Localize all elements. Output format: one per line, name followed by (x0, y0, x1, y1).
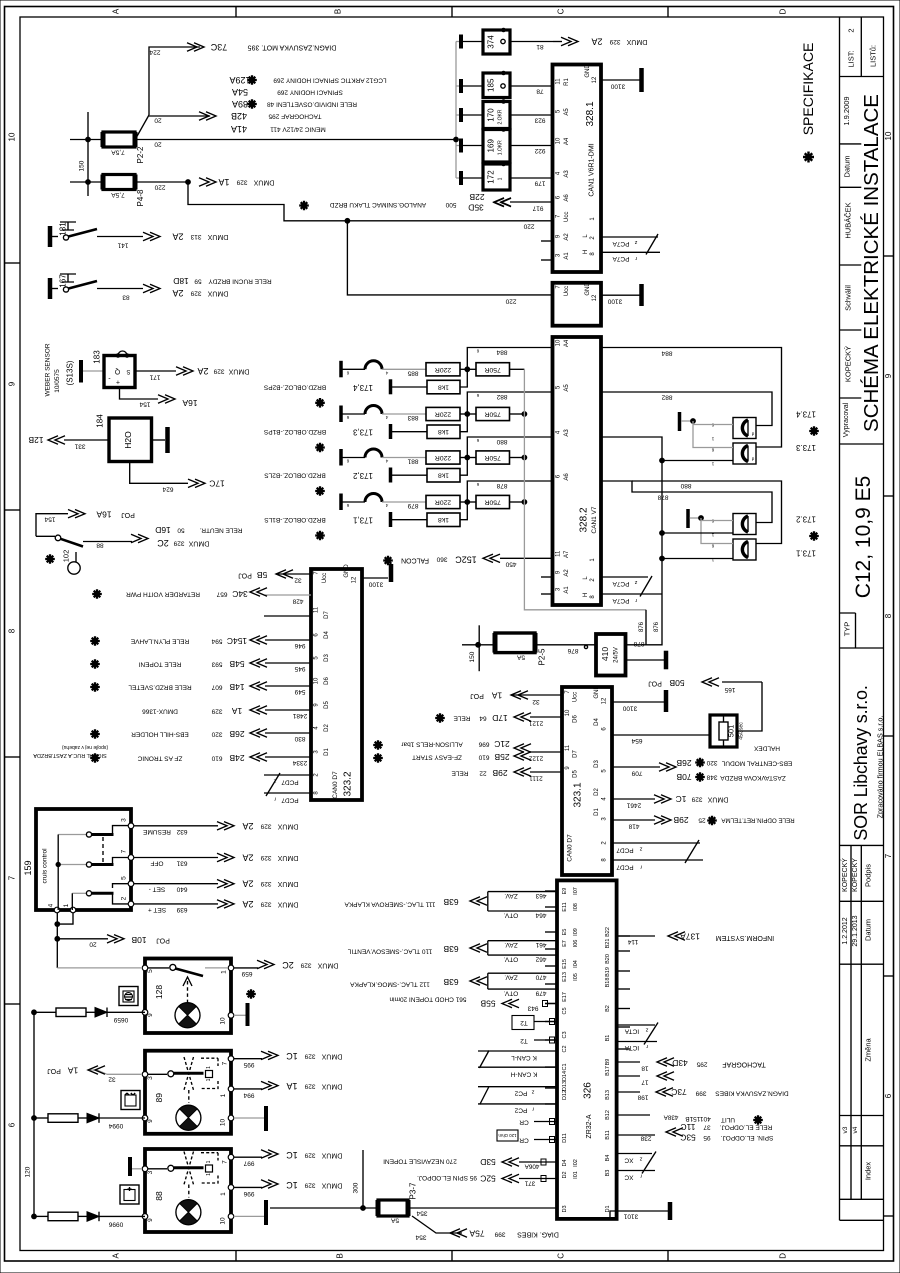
svg-text:ZASTAVKOVA BRZDA: ZASTAVKOVA BRZDA (720, 774, 786, 781)
svg-text:3100: 3100 (610, 83, 625, 90)
svg-text:D12: D12 (562, 1090, 568, 1100)
svg-text:876: 876 (654, 621, 660, 632)
svg-text:3: 3 (121, 818, 128, 822)
svg-text:DMUX: DMUX (188, 540, 209, 547)
wire 750R to bus (510, 457, 525, 459)
svg-text:1A: 1A (218, 177, 229, 187)
svg-text:2.OKR: 2.OKR (498, 109, 504, 124)
svg-text:2461: 2461 (626, 802, 641, 809)
svg-text:DMUX: DMUX (321, 1152, 342, 1159)
wire 410 to bar (626, 659, 665, 661)
svg-text:354: 354 (416, 1210, 427, 1217)
svg-text:348: 348 (706, 774, 717, 781)
fuse P3-7 (362, 1150, 364, 1208)
svg-text:418: 418 (628, 823, 639, 830)
svg-text:A6: A6 (564, 194, 570, 202)
svg-text:709: 709 (631, 770, 642, 777)
svg-text:876: 876 (639, 621, 645, 632)
svg-text:DIAG. KIBES: DIAG. KIBES (517, 1231, 559, 1238)
wire 878 jog (601, 481, 772, 523)
box 410 24/5V (596, 634, 626, 676)
svg-text:18D: 18D (173, 276, 189, 286)
svg-text:7: 7 (222, 1160, 229, 1164)
svg-text:55B: 55B (480, 999, 495, 1009)
svg-text:7: 7 (121, 849, 128, 853)
svg-text:CR: CR (519, 1119, 529, 1126)
svg-text:997: 997 (243, 1160, 254, 1167)
diode resistor chain 89 (32, 1116, 37, 1121)
svg-text:DMUX: DMUX (626, 38, 647, 45)
relay fuse 172 (459, 171, 463, 185)
contact resume (58, 834, 86, 836)
svg-text:RETARDER VOITH PWR: RETARDER VOITH PWR (126, 591, 200, 598)
svg-text:438A: 438A (663, 1114, 679, 1121)
svg-text:E7: E7 (562, 940, 568, 947)
svg-text:WEBER SENSOR: WEBER SENSOR (45, 343, 52, 396)
svg-text:95: 95 (703, 1134, 711, 1141)
svg-text:D2: D2 (562, 1171, 568, 1178)
svg-text:885: 885 (407, 369, 418, 376)
row RESUME (134, 825, 218, 827)
svg-text:750R: 750R (484, 454, 500, 461)
stub rows with conn (545, 1003, 557, 1005)
svg-text:220R: 220R (435, 499, 451, 506)
svg-text:C12, 10,9 E5: C12, 10,9 E5 (852, 476, 875, 599)
svg-text:POJ: POJ (121, 511, 135, 518)
row RELE EL ODPOJ 11C (617, 1134, 655, 1136)
svg-text:329: 329 (691, 796, 702, 803)
pin stubs A2 A1 328.1 (541, 240, 553, 242)
svg-text:PCD7: PCD7 (281, 779, 299, 786)
svg-text:cruis control: cruis control (42, 848, 49, 884)
svg-text:D11: D11 (562, 1133, 568, 1143)
svg-text:OTV.: OTV. (504, 990, 519, 997)
wire 152C FALCON (500, 557, 553, 559)
fuse P2-2 (103, 132, 135, 147)
resistor bus vertical (524, 369, 646, 610)
svg-text:3100: 3100 (607, 298, 622, 305)
contact off (58, 864, 86, 866)
svg-text:PCD7: PCD7 (616, 847, 634, 854)
wire GND 3100 328.1 (601, 79, 640, 81)
svg-text:B22: B22 (605, 927, 611, 937)
svg-text:171: 171 (149, 374, 160, 381)
svg-text:7: 7 (8, 875, 17, 880)
svg-text:D1: D1 (594, 808, 600, 816)
svg-text:A4: A4 (564, 339, 570, 347)
wire stack feed (149, 115, 210, 117)
svg-text:D14: D14 (562, 1071, 568, 1081)
svg-text:198: 198 (637, 1094, 648, 1101)
wire 882 to conn 173.4 (601, 392, 772, 426)
svg-text:10: 10 (314, 677, 320, 684)
resistor 750R 173,4 (476, 363, 510, 376)
svg-text:10: 10 (220, 1119, 227, 1127)
svg-text:220R: 220R (435, 411, 451, 418)
svg-text:GND: GND (585, 64, 591, 78)
svg-text:z: z (634, 579, 637, 585)
svg-text:500: 500 (445, 201, 456, 208)
svg-text:I01: I01 (573, 1171, 579, 1179)
svg-text:17C: 17C (209, 478, 225, 488)
svg-text:329: 329 (304, 1152, 315, 1159)
svg-text:ZF-EASY START: ZF-EASY START (412, 754, 462, 761)
wire to pin 882 (467, 392, 552, 414)
svg-text:428: 428 (292, 598, 303, 605)
svg-text:329: 329 (304, 1083, 315, 1090)
svg-text:DMUX: DMUX (321, 1083, 342, 1090)
svg-text:B: B (334, 9, 343, 14)
rows XC (617, 1153, 652, 1155)
svg-text:Ucc: Ucc (322, 573, 328, 583)
svg-text:329: 329 (190, 289, 201, 296)
svg-text:DMUX: DMUX (277, 900, 298, 907)
svg-text:LIST:: LIST: (846, 50, 855, 67)
resistor 750R 173,1 (476, 495, 510, 508)
fan symbol 89 (176, 1105, 201, 1130)
svg-text:173.3: 173.3 (795, 443, 816, 452)
svg-text:D: D (779, 1253, 788, 1259)
svg-text:220: 220 (505, 298, 516, 305)
svg-text:81: 81 (536, 43, 544, 50)
svg-text:329: 329 (304, 1182, 315, 1189)
svg-text:z: z (639, 1156, 642, 1162)
svg-text:185: 185 (487, 78, 496, 92)
svg-text:16A: 16A (182, 398, 197, 408)
svg-text:B13: B13 (605, 1090, 611, 1100)
svg-text:224: 224 (149, 49, 160, 56)
svg-text:I08: I08 (573, 903, 579, 911)
switch inside 88 (148, 1168, 167, 1170)
right stubs 326 (617, 935, 630, 937)
svg-text:996: 996 (243, 1190, 254, 1197)
svg-text:406A: 406A (524, 1163, 540, 1170)
svg-text:Index: Index (864, 1162, 873, 1181)
svg-text:183: 183 (93, 350, 102, 364)
svg-text:C3: C3 (562, 1031, 568, 1038)
brake sensor group 173,2 (339, 449, 343, 466)
svg-text:607: 607 (211, 684, 222, 691)
svg-text:639: 639 (176, 906, 187, 913)
arrow DMUX 313 2A (143, 232, 160, 240)
wires 159 internal (57, 835, 59, 911)
svg-text:63B: 63B (443, 977, 458, 987)
svg-text:Datum: Datum (843, 155, 852, 177)
box 501 HALDEX (710, 715, 737, 747)
svg-text:450: 450 (505, 561, 516, 568)
row 55B CHOD TOPENI (545, 1003, 557, 1005)
svg-text:750R: 750R (484, 366, 500, 373)
svg-text:462: 462 (535, 956, 546, 963)
brake sensor group 173,3 (339, 406, 343, 423)
svg-text:11: 11 (556, 78, 562, 85)
svg-text:(spojle nej v zabehu): (spojle nej v zabehu) (62, 744, 108, 750)
svg-text:750R: 750R (484, 499, 500, 506)
resistor 1k8 173,1 (389, 512, 393, 527)
terminal 88 pin3 (128, 1157, 132, 1176)
x-cross 88 (184, 1152, 194, 1185)
wire 659 out (234, 967, 258, 969)
svg-text:E5: E5 (562, 929, 568, 936)
row OFF (134, 857, 218, 859)
svg-text:PC2: PC2 (514, 1090, 527, 1097)
svg-text:POJ: POJ (47, 1067, 61, 1074)
resistor 220R 173,1 (426, 495, 460, 508)
svg-text:22: 22 (479, 770, 487, 777)
wire to pin 880 (467, 437, 552, 458)
svg-text:I09: I09 (573, 928, 579, 936)
svg-text:313: 313 (190, 233, 201, 240)
row DIAGN.ZASUVKA KIBES 73C (617, 1091, 640, 1093)
svg-text:A3: A3 (564, 170, 570, 178)
svg-text:B19: B19 (605, 967, 611, 977)
svg-text:RELE TOPENI: RELE TOPENI (138, 661, 181, 668)
svg-text:H: H (583, 593, 589, 597)
svg-text:KOPECKÝ: KOPECKÝ (844, 346, 853, 382)
svg-text:173,4: 173,4 (352, 383, 373, 392)
svg-text:53D: 53D (480, 1157, 496, 1167)
svg-text:D6: D6 (573, 715, 579, 723)
svg-text:329: 329 (609, 38, 620, 45)
svg-text:10: 10 (8, 132, 17, 141)
svg-text:1k8: 1k8 (438, 516, 449, 523)
diode resistor chain 128 (34, 1011, 56, 1013)
svg-text:11C: 11C (681, 1122, 696, 1132)
svg-text:53C: 53C (680, 1133, 696, 1143)
svg-text:DMUX: DMUX (277, 880, 298, 887)
svg-text:D4: D4 (594, 718, 600, 726)
svg-text:120 Ohm: 120 Ohm (498, 1133, 516, 1138)
svg-text:154C: 154C (227, 636, 247, 646)
svg-text:HUBÁČEK: HUBÁČEK (844, 202, 853, 238)
svg-text:9: 9 (147, 1218, 154, 1222)
svg-text:SET -: SET - (149, 886, 166, 893)
dashed actuator 128 (187, 981, 189, 1002)
row 52C SPIN EL ODPOJ (519, 1178, 557, 1180)
svg-text:879: 879 (407, 502, 418, 509)
wire GND 323.1 (612, 701, 664, 703)
svg-text:29.1.2013: 29.1.2013 (852, 915, 859, 946)
svg-text:464: 464 (535, 912, 546, 919)
svg-text:5: 5 (147, 969, 154, 973)
svg-text:331: 331 (74, 443, 85, 450)
svg-text:GND: GND (585, 282, 591, 296)
svg-text:20: 20 (89, 941, 97, 948)
svg-text:26B: 26B (229, 729, 244, 739)
svg-text:DMUX: DMUX (707, 796, 728, 803)
svg-text:r: r (635, 597, 637, 603)
svg-text:DMUX: DMUX (277, 822, 298, 829)
svg-text:173,2: 173,2 (352, 471, 373, 480)
svg-text:D1: D1 (324, 748, 330, 756)
wire D1 418 (612, 819, 655, 821)
connector 173.2 (733, 514, 756, 535)
svg-text:17: 17 (641, 1079, 649, 1086)
svg-text:173.2: 173.2 (795, 515, 816, 524)
svg-text:Zpracováno firmou ELBAS s.r.o.: Zpracováno firmou ELBAS s.r.o. (875, 716, 884, 819)
svg-text:10: 10 (220, 1217, 227, 1225)
svg-text:I02: I02 (573, 1159, 579, 1167)
svg-text:ALLISON-RELS 1bar: ALLISON-RELS 1bar (400, 741, 462, 748)
wire to pin 884 (467, 348, 552, 370)
svg-text:SPECIFIKACE: SPECIFIKACE (800, 43, 816, 136)
resistor 750R 173,3 (476, 407, 510, 420)
svg-text:876: 876 (567, 647, 578, 654)
svg-text:H2O: H2O (123, 431, 133, 449)
svg-text:r: r (532, 1106, 534, 1112)
feed bus x456 (455, 42, 457, 179)
svg-text:6: 6 (8, 1122, 17, 1127)
svg-text:S: S (126, 368, 130, 374)
wire diag kibes (412, 1216, 462, 1233)
svg-text:128: 128 (154, 985, 164, 999)
svg-text:A3: A3 (564, 429, 570, 437)
svg-text:E17: E17 (562, 992, 568, 1002)
svg-text:470: 470 (535, 974, 546, 981)
svg-text:CAN0 D7: CAN0 D7 (332, 771, 339, 799)
row TACHOGRAF 43D (617, 1061, 640, 1063)
svg-text:PC7A: PC7A (612, 240, 630, 247)
wire 3100 gnd2 (601, 294, 640, 296)
wire 224 (149, 47, 200, 115)
brake sensor group 173,4 (339, 361, 343, 378)
svg-text:882: 882 (496, 393, 507, 400)
svg-text:1A: 1A (231, 706, 242, 716)
svg-text:20: 20 (154, 117, 162, 124)
svg-text:11: 11 (565, 744, 571, 751)
svg-text:878: 878 (496, 482, 507, 489)
svg-text:MENIC 24/12V 411: MENIC 24/12V 411 (270, 126, 326, 133)
svg-text:A1: A1 (564, 586, 570, 594)
svg-text:RELE ODPIN.RET.TELMA: RELE ODPIN.RET.TELMA (721, 817, 795, 824)
svg-text:34C: 34C (232, 589, 248, 599)
svg-text:1: 1 (63, 903, 70, 907)
svg-text:CR: CR (519, 1137, 529, 1144)
svg-text:POJ: POJ (470, 692, 484, 699)
svg-text:882: 882 (661, 394, 672, 401)
diode resistor chain 88 (32, 1214, 37, 1219)
svg-text:3: 3 (147, 1076, 154, 1080)
svg-text:20: 20 (154, 141, 162, 148)
wire net 20 from P2-2 (135, 139, 456, 141)
svg-text:170: 170 (487, 108, 496, 122)
svg-text:300: 300 (353, 1182, 360, 1193)
svg-text:25: 25 (698, 817, 706, 824)
svg-text:CAN0 D7: CAN0 D7 (567, 834, 574, 862)
svg-text:1: 1 (206, 1078, 212, 1081)
svg-text:24B: 24B (229, 753, 244, 763)
svg-text:Datum: Datum (864, 919, 873, 941)
wire 17D RELE (530, 716, 562, 718)
svg-text:z: z (645, 1027, 648, 1033)
resistor 220R 173,2 (426, 451, 460, 464)
svg-text:14B: 14B (229, 682, 244, 692)
svg-text:8: 8 (884, 613, 893, 618)
svg-text:632: 632 (176, 828, 187, 835)
svg-text:10/0575: 10/0575 (54, 369, 61, 393)
svg-text:26B: 26B (676, 758, 691, 768)
svg-text:59: 59 (194, 278, 202, 285)
svg-text:11: 11 (556, 550, 562, 557)
wire to 183 (83, 370, 104, 372)
svg-text:220: 220 (523, 223, 534, 230)
svg-text:154: 154 (139, 401, 150, 408)
svg-text:E11: E11 (562, 902, 568, 911)
svg-text:5A: 5A (516, 654, 525, 661)
svg-text:112 TLAC.-SMOG.KLAPKA: 112 TLAC.-SMOG.KLAPKA (350, 981, 430, 988)
wire net 220 (135, 181, 188, 183)
svg-text:654: 654 (631, 737, 642, 744)
svg-text:Vypracoval: Vypracoval (843, 402, 850, 437)
wire 171 (135, 370, 176, 372)
svg-text:2A: 2A (242, 879, 253, 889)
svg-text:1: 1 (498, 177, 504, 180)
svg-text:D7: D7 (324, 611, 330, 619)
wire 5B POJ (276, 573, 311, 575)
svg-text:54B: 54B (229, 659, 244, 669)
svg-text:32: 32 (532, 698, 540, 705)
svg-text:29B: 29B (673, 815, 688, 825)
svg-text:220: 220 (154, 184, 165, 191)
svg-text:D13: D13 (562, 1081, 568, 1091)
svg-text:12B: 12B (28, 435, 43, 445)
resistor 750R 173,2 (476, 451, 510, 464)
svg-text:329: 329 (173, 540, 184, 547)
svg-text:2334: 2334 (292, 759, 307, 766)
svg-text:884: 884 (661, 350, 672, 357)
svg-text:1: 1 (221, 970, 228, 974)
svg-text:750R: 750R (484, 411, 500, 418)
row SET + (134, 903, 218, 905)
switch 102 (36, 535, 55, 537)
svg-text:374: 374 (487, 35, 496, 49)
svg-text:323.2: 323.2 (343, 771, 354, 796)
relay fuse 185 (459, 79, 463, 93)
svg-text:B1: B1 (605, 1035, 611, 1042)
svg-text:GND: GND (594, 685, 600, 699)
svg-text:137A: 137A (680, 932, 700, 942)
svg-text:10: 10 (884, 131, 893, 140)
icon recirc 89 (121, 1091, 140, 1110)
svg-text:173,1: 173,1 (352, 516, 373, 525)
svg-text:354: 354 (415, 1234, 426, 1241)
svg-text:D: D (779, 8, 788, 14)
svg-text:DMUX: DMUX (321, 1182, 342, 1189)
svg-text:0996: 0996 (108, 1221, 123, 1228)
svg-text:150: 150 (469, 651, 476, 662)
svg-text:A: A (112, 1252, 121, 1258)
svg-text:323.1: 323.1 (573, 782, 584, 807)
svg-text:150: 150 (79, 160, 86, 171)
svg-text:880: 880 (680, 482, 691, 489)
svg-text:r: r (635, 255, 637, 261)
twisted pair PCD7 323.1 (612, 842, 700, 844)
svg-text:329: 329 (260, 822, 271, 829)
svg-text:73C: 73C (210, 42, 227, 52)
svg-text:5A: 5A (390, 1217, 399, 1224)
svg-text:3: 3 (147, 1170, 154, 1174)
svg-text:83: 83 (122, 294, 130, 301)
svg-text:184: 184 (96, 414, 105, 428)
svg-text:657: 657 (216, 591, 227, 598)
svg-text:I06: I06 (573, 940, 579, 948)
svg-text:360: 360 (436, 556, 447, 563)
relay fuse 170 (459, 108, 463, 122)
svg-text:12: 12 (592, 294, 598, 301)
svg-text:141: 141 (117, 242, 128, 249)
svg-text:179: 179 (534, 180, 545, 187)
svg-text:95 SPIN EL.ODPOJ.: 95 SPIN EL.ODPOJ. (417, 1174, 477, 1181)
